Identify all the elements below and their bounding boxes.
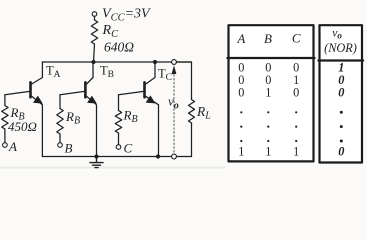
terminal A [3, 143, 8, 148]
svg-text:C: C [292, 31, 301, 46]
svg-text:1: 1 [265, 86, 271, 100]
scan smudge bottom [0, 167, 225, 169]
wire base to RB [118, 95, 120, 111]
wire RB to terminal [118, 133, 120, 145]
terminal B [58, 143, 63, 148]
svg-text:0: 0 [238, 86, 244, 100]
power terminal VCC [92, 12, 97, 17]
wire VCC to RC [94, 16, 96, 20]
transistor TC [119, 62, 159, 157]
dashed line vo [173, 75, 175, 154]
terminal C [116, 145, 121, 150]
svg-text:(NOR): (NOR) [324, 41, 357, 55]
transistor TA [5, 62, 43, 157]
resistor RB (B input) [57, 109, 63, 135]
wire RB to terminal [4, 129, 6, 143]
truth table ABC box [229, 25, 314, 161]
svg-text:VCC=3V: VCC=3V [102, 7, 151, 24]
svg-text:1: 1 [238, 144, 244, 158]
wire RB to terminal [59, 134, 61, 143]
resistor RC [91, 20, 97, 44]
wire emitter/ground bus [42, 156, 191, 158]
svg-text:450Ω: 450Ω [8, 119, 37, 134]
truth table vo box [320, 25, 363, 162]
node TC collector junction [153, 60, 157, 64]
resistor RL [189, 100, 195, 124]
svg-text:1: 1 [265, 144, 271, 158]
truth table header underline (ABC) [227, 57, 314, 59]
table ellipsis dots [240, 111, 242, 113]
node ground junction [94, 154, 98, 158]
resistor RB (C input) [115, 111, 121, 134]
svg-text:0: 0 [293, 86, 299, 100]
arrow vo [172, 65, 177, 74]
svg-text:B: B [264, 31, 272, 46]
node TC emitter junction [156, 154, 160, 158]
wire collector bus [42, 61, 191, 63]
svg-text:1: 1 [293, 144, 299, 158]
wire base to RB [59, 95, 61, 109]
transistor TB [60, 62, 97, 157]
node RC/TB collector junction [91, 60, 95, 64]
svg-text:0: 0 [338, 144, 344, 158]
svg-text:A: A [8, 139, 17, 154]
wire RC to collector bus [94, 44, 95, 62]
svg-text:B: B [65, 141, 73, 156]
terminal vo bottom [172, 154, 177, 159]
wire bus to RL [176, 62, 191, 100]
resistor RB (A input) [2, 106, 8, 130]
svg-text:640Ω: 640Ω [104, 40, 134, 55]
terminal vo top [172, 60, 177, 65]
truth table header underline (vo) [318, 59, 363, 61]
svg-text:A: A [236, 31, 245, 46]
wire RL to ground bus [191, 123, 193, 157]
svg-text:0: 0 [338, 86, 344, 100]
svg-text:C: C [124, 141, 133, 156]
ground [90, 157, 103, 168]
wire base to RB [4, 95, 6, 106]
